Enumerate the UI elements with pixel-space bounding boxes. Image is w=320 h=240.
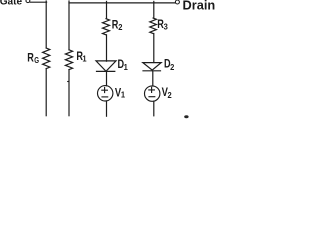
wire V2 bottom	[153, 101, 155, 116]
svg-text:3: 3	[164, 21, 168, 31]
diode D1	[96, 61, 116, 71]
svg-text:1: 1	[82, 53, 86, 63]
wire D2 to V2	[152, 71, 154, 86]
svg-text:1: 1	[124, 62, 128, 72]
resistor R1	[65, 50, 72, 70]
wire drain rail	[69, 2, 175, 4]
node Source cropped dot	[184, 115, 188, 118]
wire gate horizontal	[30, 1, 46, 3]
wire R3 to D2	[153, 34, 155, 63]
svg-text:R: R	[27, 52, 34, 64]
source V2	[145, 86, 160, 101]
source V1	[98, 86, 113, 101]
diode D2	[143, 63, 161, 71]
resistor RG	[43, 48, 50, 69]
wire RG bottom	[45, 69, 47, 116]
wire gate branch down to RG	[45, 1, 47, 48]
svg-text:1: 1	[121, 90, 125, 100]
svg-text:2: 2	[168, 90, 172, 100]
wire R1 branch down	[68, 1, 70, 50]
wire R3 branch down	[153, 1, 155, 18]
wire R2 branch down	[106, 1, 108, 18]
resistor R3	[150, 18, 157, 34]
wire R2 to D1	[106, 35, 108, 61]
resistor R2	[103, 19, 110, 35]
svg-text:2: 2	[170, 62, 174, 72]
svg-text:Gate: Gate	[0, 0, 23, 8]
node Drain terminal	[175, 0, 179, 4]
node Gate terminal	[26, 0, 30, 3]
wire D1 to V1	[106, 72, 108, 85]
wire V1 bottom	[106, 101, 108, 116]
svg-text:G: G	[34, 55, 39, 65]
svg-text:2: 2	[118, 22, 122, 32]
svg-text:Drain: Drain	[183, 0, 216, 12]
wire R1 tick	[67, 81, 70, 83]
wire R1 bottom	[68, 70, 70, 116]
